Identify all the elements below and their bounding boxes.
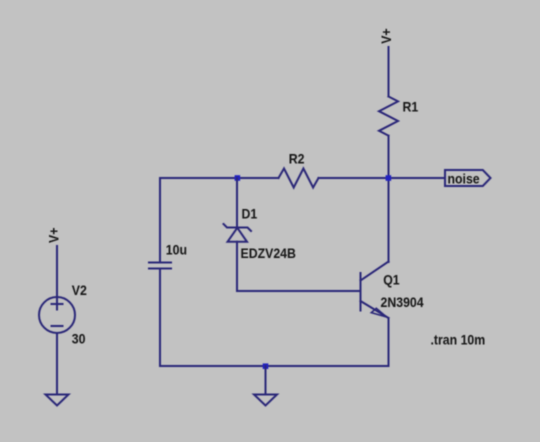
junction dot at collector node	[386, 175, 392, 181]
wire cap top vertical	[159, 178, 161, 262]
Q1 emitter diagonal	[361, 301, 389, 318]
label Q1	[383, 272, 399, 288]
ground stub wire	[265, 366, 267, 395]
wire V2 bottom to ground	[56, 333, 58, 394]
wire D1 anode down	[236, 242, 238, 291]
ground center	[254, 395, 277, 406]
svg-text:V+: V+	[378, 28, 394, 44]
value 30	[72, 331, 86, 347]
label D1	[242, 206, 258, 222]
wire R1 to collector node	[388, 136, 390, 262]
value 2N3904	[381, 294, 425, 310]
svg-text:V2: V2	[72, 282, 87, 298]
svg-text:D1: D1	[242, 206, 258, 222]
value EDZV24B	[241, 245, 296, 261]
directive .tran 10m	[431, 332, 486, 348]
Q1 emitter arrow	[371, 308, 386, 317]
wire cap top to R2	[160, 177, 279, 179]
svg-text:2N3904: 2N3904	[381, 294, 425, 310]
bottom wire	[160, 365, 389, 367]
wire emitter down	[388, 318, 390, 366]
wire R2 to noise flag	[319, 177, 445, 179]
capacitor C 10u bottom plate	[149, 268, 171, 270]
transistor Q1 base bar	[360, 273, 362, 311]
zener diode D1	[224, 224, 252, 242]
svg-text:Q1: Q1	[383, 272, 399, 288]
svg-text:.tran 10m: .tran 10m	[431, 332, 486, 348]
svg-text:30: 30	[72, 331, 86, 347]
wire D1 to Q1 base	[237, 290, 361, 292]
node V+ right label	[378, 28, 394, 44]
resistor R1	[379, 97, 398, 136]
svg-text:10u: 10u	[166, 242, 187, 258]
voltage source V2	[39, 297, 75, 333]
wire V+ to R1	[388, 47, 390, 97]
label V2	[72, 282, 87, 298]
value 10u	[166, 242, 187, 258]
V2 plus mark	[52, 299, 63, 310]
svg-text:EDZV24B: EDZV24B	[241, 245, 296, 261]
capacitor C 10u top plate	[149, 262, 171, 264]
svg-text:R2: R2	[289, 151, 305, 167]
noise label text	[448, 171, 480, 187]
wire cap bottom vertical	[159, 269, 161, 367]
label R2	[289, 151, 305, 167]
svg-text:V+: V+	[46, 227, 62, 243]
Q1 collector diagonal	[361, 262, 389, 281]
node V+ left label	[46, 227, 62, 243]
V2 minus mark	[52, 325, 63, 327]
ground left	[46, 395, 69, 406]
junction dot at ground	[263, 363, 269, 369]
net flag noise	[445, 170, 491, 186]
svg-text:R1: R1	[403, 99, 419, 115]
junction dot at D1 node	[235, 175, 241, 181]
label R1	[403, 99, 419, 115]
svg-text:noise: noise	[448, 171, 480, 187]
wire V+ to V2 top	[56, 246, 58, 297]
wire node to D1 cathode	[236, 178, 238, 228]
resistor R2	[279, 169, 319, 188]
